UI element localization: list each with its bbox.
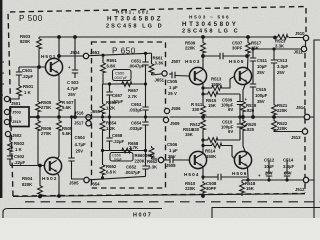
resistor R520 820 [241,119,246,132]
connector J512 [303,177,308,182]
resistor R506 270K [36,119,41,132]
full width dashed separator [25,201,320,203]
capacitor C509 100uF 6V [239,94,241,102]
connector J509 [163,117,168,122]
resistor R502 1K [9,137,11,141]
resistor R512 330 [201,118,206,131]
node bus R505 [36,115,40,119]
capacitor C514 3.3uF 25V [286,160,288,173]
node base H501 [37,65,41,69]
resistor R652 6.8K [102,151,104,164]
resistor R657 2.7K [120,82,133,87]
connector J510 [273,36,277,40]
resistor R658 2.7K [120,148,133,153]
resistor R507 5.6K [57,99,62,112]
main bus right segment [170,116,305,118]
capacitor C505 1uF 25V [169,73,172,75]
capacitor C653 .033uF [145,84,147,107]
wire H504 collector down [202,166,203,181]
transistor H505 [234,67,251,84]
connector J502 [5,131,10,136]
wire H506 emitter up [243,138,247,155]
wire J504 link [59,55,83,57]
resistor R662 3.3K [149,146,154,159]
capacitor C651 .0047uF [145,53,147,62]
styroflex C650 box [113,70,132,81]
styroflex C656 box [110,153,133,162]
resistor R508 5.6K [57,119,62,132]
resistor R519 820 [241,100,246,113]
wire H501 emitter down [58,73,59,100]
wire H503 emitter [202,82,203,105]
resistor R651 6.8K [102,55,104,61]
connector J511 [301,46,306,51]
resistor R501 1K [17,84,22,97]
node bus C503 [73,115,77,119]
P500 dashed border [8,7,306,197]
node H502 collector rail [57,194,61,198]
P650 bottom wire [89,176,145,179]
capacitor C512 10uF 25V [268,160,270,173]
connector J514 [304,114,310,120]
capacitor C503 4.7uF 25V [74,37,76,70]
wire H504 emitter up [202,146,203,155]
resistor R518 15K [240,181,245,194]
resistor R505 270K [37,67,39,100]
next block outline bottom-left [3,209,162,219]
resistor R522 220K [272,119,277,132]
wire H502 collector down [57,173,59,197]
node bus R507 [57,115,61,119]
connector J651 [162,71,167,76]
capacitor C511 10uF 25V [252,49,254,58]
resistor R513 150K (feedback) [203,87,210,89]
resistor R516 15K [203,139,206,141]
wire H505 collector [247,54,248,71]
connector J505/J654 [84,177,89,182]
capacitor C513 3.3uF 25V [273,49,275,60]
node base H502 [38,164,42,168]
wire mid bottom [103,150,146,152]
resistor R503 820K [37,37,42,50]
wire mid top [103,83,146,85]
P650 bus segment [38,116,168,118]
P650 top wire [89,53,152,56]
resistor R504 820K [39,166,41,185]
resistor R654 1.2K [100,119,105,132]
transistor H503 [189,67,206,84]
paper grain overlay [0,0,1,1]
scan tick marks left [0,62,4,95]
resistor R515 15K [203,93,206,95]
next block outline bottom-right [212,208,320,219]
capacitor C506 1uF 25V [170,157,173,163]
node R504 rail [38,195,42,199]
capacitor C515 100uF 35V [250,84,256,87]
connector J652/J508 [158,157,163,162]
connector J504/J653 [83,53,88,58]
capacitor C657 .22uF [109,84,111,92]
resistor R523 3.3K (series in rail) [276,35,289,40]
capacitor C507 30PF [203,55,220,57]
capacitor C658 .22uF [109,117,111,138]
node J504 wire x59 [57,54,61,58]
resistor R514 150K [203,145,210,147]
capacitor C510 100uF 6V [239,117,241,124]
node collector H501 [57,35,61,39]
connector J506 [164,108,169,113]
capacitor C508 30PF [203,176,218,178]
wire H501 collector to rail [58,37,59,62]
transistor H506 [234,151,251,168]
capacitor C504 4.7uF 25V [71,117,73,158]
wire H505 emitter chain [243,82,247,101]
wire H501 base [19,66,46,68]
wire block to bus [29,116,38,118]
connector J501 [4,96,9,101]
resistor R510 220K [201,181,206,194]
resistor R521 220K [272,103,277,116]
P650 dashed box [92,42,166,188]
connector block J503/J515 [10,107,29,127]
connector J513 [302,129,307,134]
resistor R661 3.3K [151,53,153,62]
output wire bottom [248,179,303,181]
right outer rail [309,40,320,218]
capacitor C501 .22uF [18,67,20,72]
resistor R517 15K [246,41,251,54]
resistor R653 1.2K [102,84,104,102]
transistor H502 [44,157,61,174]
wire H502 emitter up [57,150,59,160]
wire H503 collector [202,56,203,71]
wire J511 feed [253,41,306,49]
node rail x75 [73,35,77,39]
wire to J513 [274,131,302,134]
top rail wire [39,36,304,39]
wire H506 collector down [247,166,248,181]
connector J655 [86,121,91,126]
transistor H504 [189,151,206,168]
bottom rail wire [13,194,305,197]
wire H502 base [10,165,45,167]
resistor R511 330 [201,104,206,117]
connector J516 [86,115,91,120]
scan edge bar left [0,0,2,198]
capacitor C652 .0047uF [145,151,147,167]
transistor H501 [45,58,62,75]
capacitor C654 .033uF [145,117,147,122]
capacitor C502 .22uF [9,153,11,156]
resistor R509 220K (collector load) [201,41,206,54]
